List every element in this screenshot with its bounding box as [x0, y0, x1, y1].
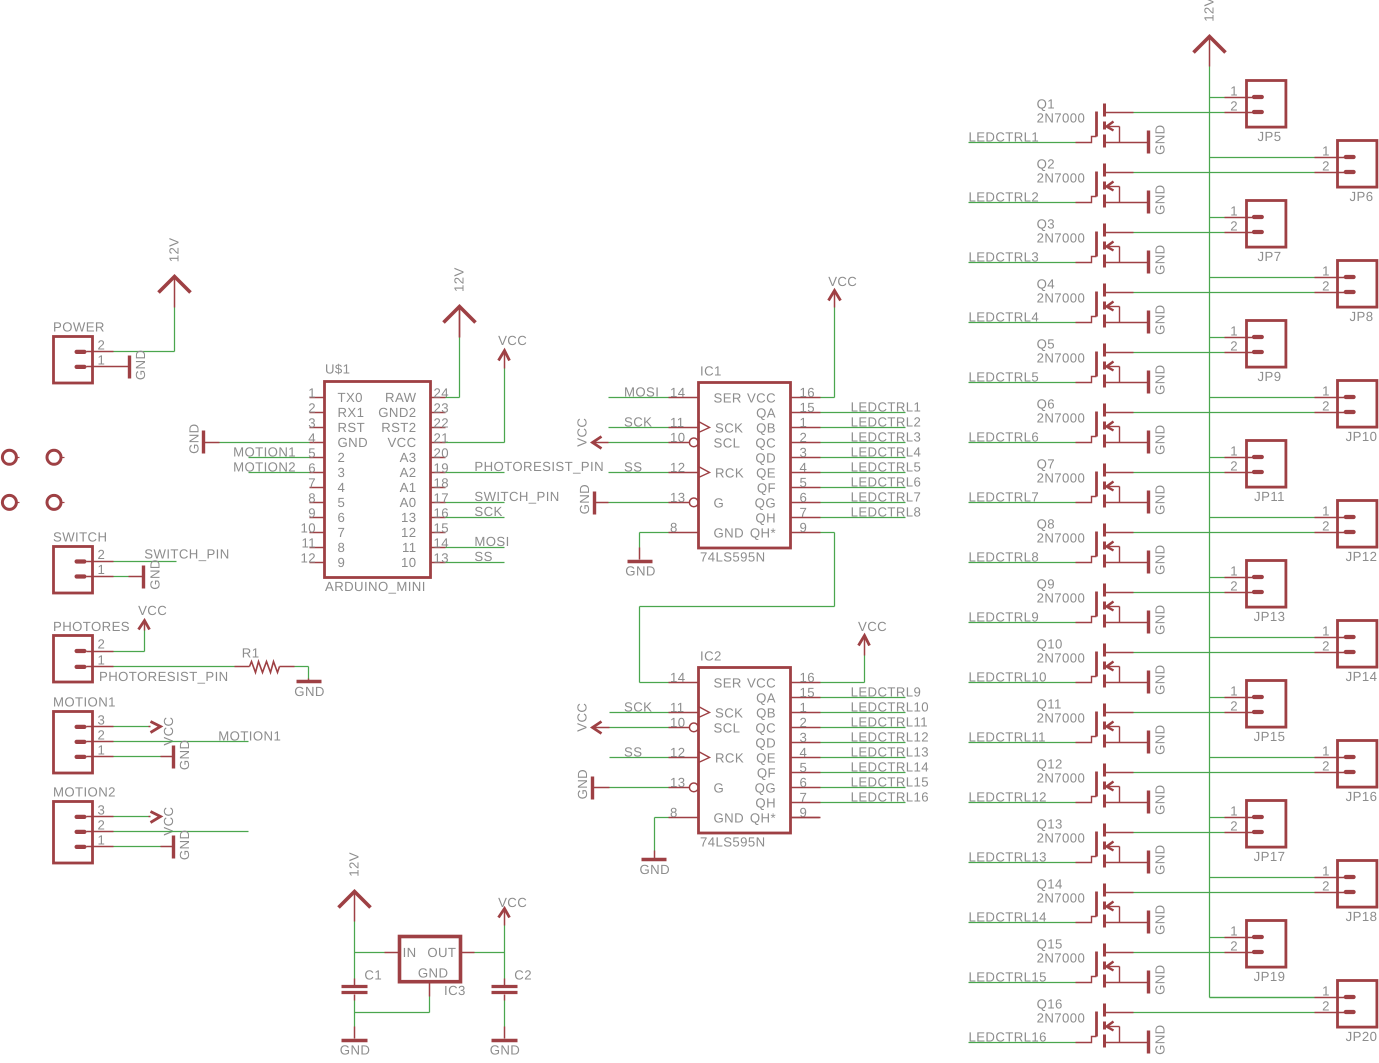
- svg-text:2: 2: [1322, 759, 1330, 774]
- svg-text:24: 24: [434, 385, 449, 400]
- wire MOSI from U$1 pin 14: [445, 546, 504, 548]
- svg-text:QD: QD: [755, 735, 776, 750]
- wire Q10 drain to JP14 pin 2: [1133, 652, 1314, 654]
- wire 12V from POWER pin 2: [114, 307, 175, 351]
- svg-text:JP17: JP17: [1254, 849, 1286, 864]
- svg-text:7: 7: [799, 790, 807, 805]
- connector JP9: [1225, 321, 1286, 385]
- svg-text:GND: GND: [1152, 544, 1167, 575]
- svg-text:LEDCTRL2: LEDCTRL2: [851, 414, 922, 429]
- svg-text:IC1: IC1: [700, 364, 722, 379]
- wire LEDCTRL1 from IC1: [821, 412, 906, 414]
- svg-text:QA: QA: [756, 405, 776, 420]
- connector JP5: [1225, 81, 1286, 145]
- svg-text:19: 19: [434, 460, 449, 475]
- net label SS at U$1: [474, 549, 492, 564]
- svg-text:2: 2: [1230, 939, 1238, 954]
- svg-text:LEDCTRL13: LEDCTRL13: [851, 744, 929, 759]
- svg-text:1: 1: [97, 562, 105, 577]
- ground GND at IC1 pin 13: [577, 484, 609, 515]
- svg-text:2N7000: 2N7000: [1037, 651, 1086, 666]
- svg-text:13: 13: [670, 490, 685, 505]
- wire GND to IC1 pin 13: [609, 501, 669, 503]
- svg-text:1: 1: [1230, 804, 1238, 819]
- svg-text:LEDCTRL7: LEDCTRL7: [851, 489, 922, 504]
- power symbol 12V at POWER: [159, 238, 191, 308]
- svg-text:3: 3: [338, 465, 346, 480]
- wire LEDCTRL12 to Q12 gate: [968, 802, 1075, 804]
- wire Q11 drain to JP15 pin 2: [1133, 712, 1224, 714]
- wire 12V rail to JP9 pin 1: [1210, 337, 1225, 339]
- ground GND at IC2 pin 8: [639, 859, 670, 877]
- svg-text:2N7000: 2N7000: [1037, 591, 1086, 606]
- svg-text:LEDCTRL3: LEDCTRL3: [851, 429, 922, 444]
- wire LEDCTRL5 from IC1: [821, 472, 906, 474]
- wire LEDCTRL8 from IC1: [821, 517, 906, 519]
- wire Q4 drain to JP8 pin 2: [1134, 292, 1315, 294]
- svg-text:GND: GND: [133, 350, 148, 381]
- svg-text:15: 15: [434, 520, 449, 535]
- transistor Q1 2N7000: [1037, 97, 1148, 148]
- svg-text:2N7000: 2N7000: [1037, 711, 1086, 726]
- capacitor C1: [341, 967, 382, 992]
- wire LEDCTRL11 from IC2: [820, 727, 905, 729]
- ic U$1 ARDUINO_MINI: [301, 362, 449, 595]
- svg-text:GND: GND: [177, 830, 192, 861]
- svg-text:QB: QB: [756, 705, 776, 720]
- svg-text:U$1: U$1: [325, 362, 350, 377]
- svg-text:74LS595N: 74LS595N: [700, 835, 766, 850]
- svg-text:16: 16: [434, 505, 449, 520]
- wire LEDCTRL7 from IC1: [821, 502, 906, 504]
- wire LEDCTRL5 to Q5 gate: [969, 382, 1076, 384]
- ic IC2 74LS595N: [668, 649, 820, 850]
- connector JP8: [1315, 261, 1377, 325]
- svg-text:Q12: Q12: [1037, 757, 1063, 772]
- transistor Q8 2N7000: [1037, 517, 1148, 568]
- wire MOSI to IC1 pin 14: [609, 396, 669, 398]
- transistor Q13 2N7000: [1037, 817, 1148, 868]
- svg-text:JP20: JP20: [1346, 1029, 1378, 1044]
- mounting hole H1: [2, 450, 19, 464]
- wire LEDCTRL2 from IC1: [821, 427, 906, 429]
- ground GND at Q5: [1149, 364, 1168, 395]
- svg-text:QH*: QH*: [750, 525, 776, 540]
- svg-text:9: 9: [800, 520, 808, 535]
- net label LEDCTRL4 at IC1: [851, 444, 922, 459]
- svg-text:Q7: Q7: [1037, 457, 1055, 472]
- svg-text:1: 1: [98, 352, 106, 367]
- svg-text:GND: GND: [714, 525, 745, 540]
- svg-text:4: 4: [308, 431, 316, 446]
- power symbol VCC at U$1: [498, 333, 527, 360]
- svg-text:2: 2: [1230, 699, 1238, 714]
- svg-text:1: 1: [1230, 84, 1238, 99]
- svg-text:1: 1: [97, 742, 105, 757]
- svg-text:2: 2: [800, 430, 808, 445]
- svg-text:RCK: RCK: [715, 465, 744, 480]
- svg-text:VCC: VCC: [574, 703, 589, 732]
- svg-text:GND: GND: [147, 559, 162, 590]
- connector MOTION2: [53, 784, 116, 863]
- net label SWITCH_PIN: [144, 547, 229, 562]
- svg-text:2N7000: 2N7000: [1037, 351, 1086, 366]
- svg-text:9: 9: [337, 555, 345, 570]
- svg-text:IC3: IC3: [444, 983, 466, 998]
- power symbol VCC at IC2 pin 10 (left arrow): [574, 703, 609, 734]
- svg-text:GND: GND: [1152, 844, 1167, 875]
- wire Q1 drain to JP5 pin 2: [1134, 112, 1225, 114]
- svg-text:1: 1: [799, 700, 807, 715]
- wire LEDCTRL6 to Q6 gate: [969, 442, 1076, 444]
- transistor Q4 2N7000: [1037, 277, 1148, 328]
- connector MOTION1: [53, 694, 116, 773]
- ground GND at Q11: [1148, 724, 1167, 755]
- svg-text:2: 2: [97, 727, 105, 742]
- svg-text:VCC: VCC: [498, 895, 527, 910]
- svg-text:G: G: [714, 495, 725, 510]
- svg-text:1: 1: [1322, 624, 1330, 639]
- svg-text:VCC: VCC: [138, 603, 167, 618]
- svg-text:2: 2: [1322, 279, 1330, 294]
- svg-text:1: 1: [1322, 864, 1330, 879]
- svg-text:2: 2: [97, 817, 105, 832]
- svg-text:3: 3: [97, 802, 105, 817]
- svg-text:RX1: RX1: [338, 405, 365, 420]
- svg-text:RCK: RCK: [715, 750, 744, 765]
- svg-text:GND: GND: [177, 740, 192, 771]
- ground GND at Q9: [1148, 604, 1167, 635]
- svg-text:SER: SER: [713, 675, 741, 690]
- ground GND at SWITCH pin 1: [143, 559, 162, 590]
- svg-text:Q8: Q8: [1037, 517, 1055, 532]
- svg-text:VCC: VCC: [828, 274, 857, 289]
- wire LEDCTRL4 from IC1: [821, 457, 906, 459]
- svg-text:A3: A3: [400, 450, 417, 465]
- svg-text:RST2: RST2: [381, 420, 416, 435]
- svg-text:2N7000: 2N7000: [1037, 771, 1086, 786]
- connector JP11: [1225, 441, 1286, 505]
- net label LEDCTRL1 at Q1: [969, 129, 1040, 144]
- svg-text:1: 1: [1322, 744, 1330, 759]
- wire 12V rail to JP20 pin 1: [1209, 997, 1314, 999]
- connector PHOTORES: [53, 619, 130, 682]
- net label LEDCTRL15 at Q15: [968, 969, 1046, 984]
- svg-text:Q5: Q5: [1037, 337, 1055, 352]
- svg-text:2: 2: [1230, 819, 1238, 834]
- svg-text:LEDCTRL11: LEDCTRL11: [851, 714, 928, 729]
- ground GND at MOTION1 pin 1: [173, 740, 191, 771]
- svg-text:LEDCTRL6: LEDCTRL6: [851, 474, 922, 489]
- svg-text:QC: QC: [755, 435, 776, 450]
- svg-text:SCK: SCK: [715, 705, 743, 720]
- svg-text:SER: SER: [714, 390, 742, 405]
- svg-text:8: 8: [337, 540, 345, 555]
- wire LEDCTRL1 to Q1 gate: [969, 142, 1076, 144]
- wire Q15 drain to JP19 pin 2: [1133, 952, 1224, 954]
- svg-text:2: 2: [1322, 879, 1330, 894]
- wire Q16 drain to JP20 pin 2: [1133, 1012, 1314, 1014]
- ground GND at Q3: [1149, 244, 1168, 275]
- svg-text:1: 1: [1230, 204, 1238, 219]
- svg-text:6: 6: [338, 510, 346, 525]
- wire to GND from MOTION1 pin 1: [113, 755, 173, 757]
- net label LEDCTRL7 at Q7: [969, 489, 1040, 504]
- net label LEDCTRL7 at IC1: [851, 489, 922, 504]
- connector JP16: [1314, 741, 1377, 805]
- svg-text:GND: GND: [1152, 124, 1167, 155]
- svg-text:2: 2: [1322, 399, 1330, 414]
- ground GND at Q13: [1148, 844, 1167, 875]
- svg-text:12V: 12V: [1201, 0, 1216, 22]
- svg-text:MOTION2: MOTION2: [53, 784, 116, 799]
- svg-text:2: 2: [338, 450, 346, 465]
- wire MOTION1 to U$1 pin 5: [249, 456, 310, 458]
- wire 12V rail vertical: [1208, 67, 1210, 998]
- net label SWITCH_PIN at U$1: [474, 489, 559, 504]
- connector JP17: [1224, 801, 1285, 865]
- svg-text:TX0: TX0: [338, 390, 363, 405]
- wire to GND from SWITCH pin 1: [113, 575, 143, 577]
- power symbol VCC at MOTION2 (rot): [150, 806, 175, 835]
- svg-text:1: 1: [1322, 144, 1330, 159]
- transistor Q3 2N7000: [1037, 217, 1148, 268]
- svg-text:GND: GND: [338, 435, 369, 450]
- svg-text:4: 4: [338, 480, 346, 495]
- net label PHOTORESIST_PIN at U$1: [474, 459, 604, 474]
- wire LEDCTRL15 to Q15 gate: [968, 982, 1075, 984]
- transistor Q9 2N7000: [1037, 577, 1148, 628]
- net label LEDCTRL4 at Q4: [969, 309, 1040, 324]
- svg-text:12: 12: [301, 551, 316, 566]
- wire 12V rail to JP12 pin 1: [1210, 517, 1315, 519]
- svg-text:GND: GND: [1152, 664, 1167, 695]
- connector JP14: [1314, 621, 1377, 685]
- wire VCC to IC2 pin 10: [609, 726, 668, 728]
- ground GND at Q7: [1149, 484, 1168, 515]
- transistor Q10 2N7000: [1037, 637, 1148, 688]
- svg-text:QE: QE: [756, 465, 776, 480]
- wire VCC to IC1 pin 10: [609, 441, 669, 443]
- svg-text:5: 5: [308, 446, 316, 461]
- wire LEDCTRL4 to Q4 gate: [969, 322, 1076, 324]
- ground GND at Q10: [1148, 664, 1167, 695]
- wire VCC from MOTION2 pin 3: [113, 815, 150, 817]
- svg-text:PHOTORESIST_PIN: PHOTORESIST_PIN: [99, 669, 229, 684]
- power symbol VCC at IC3 OUT: [498, 895, 527, 918]
- net label LEDCTRL13 at Q13: [968, 849, 1046, 864]
- net label LEDCTRL10 at IC2: [851, 699, 929, 714]
- wire C2 top: [503, 952, 505, 985]
- svg-text:LEDCTRL14: LEDCTRL14: [851, 759, 929, 774]
- svg-text:IN: IN: [403, 945, 417, 960]
- wire LEDCTRL16 to Q16 gate: [968, 1042, 1075, 1044]
- mounting hole H3: [2, 495, 19, 509]
- svg-text:Q9: Q9: [1037, 577, 1055, 592]
- connector SWITCH: [53, 529, 114, 593]
- power symbol VCC at PHOTORES: [138, 603, 167, 630]
- svg-text:14: 14: [433, 535, 448, 550]
- svg-text:1: 1: [308, 386, 316, 401]
- svg-text:VCC: VCC: [747, 390, 776, 405]
- svg-text:14: 14: [670, 385, 685, 400]
- wire VCC from IC2 pin 16: [820, 638, 864, 683]
- svg-text:QG: QG: [755, 495, 776, 510]
- svg-text:GND: GND: [1152, 184, 1167, 215]
- wire MOTION1 from MOTION1 pin 2: [113, 740, 248, 742]
- svg-text:SCL: SCL: [713, 720, 740, 735]
- connector JP15: [1224, 681, 1285, 745]
- svg-text:2: 2: [1322, 159, 1330, 174]
- svg-text:1: 1: [97, 832, 105, 847]
- svg-text:20: 20: [434, 445, 449, 460]
- wire SWITCH_PIN from U$1 pin 17: [446, 501, 505, 503]
- wire LEDCTRL12 from IC2: [820, 742, 905, 744]
- svg-text:13: 13: [433, 550, 448, 565]
- wire 12V rail to JP5 pin 1: [1210, 97, 1225, 99]
- net label LEDCTRL5 at Q5: [969, 369, 1040, 384]
- svg-text:GND: GND: [639, 862, 670, 877]
- wire SCK to IC1 pin 11: [609, 426, 669, 428]
- wire 12V rail to JP14 pin 1: [1209, 637, 1314, 639]
- svg-text:Q16: Q16: [1037, 997, 1063, 1012]
- net label LEDCTRL10 at Q10: [968, 669, 1046, 684]
- svg-text:2N7000: 2N7000: [1037, 1011, 1086, 1026]
- wire MOTION2 to U$1 pin 6: [249, 471, 310, 473]
- net label LEDCTRL16 at Q16: [968, 1029, 1046, 1044]
- svg-text:12V: 12V: [167, 238, 182, 263]
- svg-text:LEDCTRL10: LEDCTRL10: [851, 699, 929, 714]
- power symbol VCC above IC2: [858, 619, 887, 646]
- svg-text:Q13: Q13: [1037, 817, 1063, 832]
- ground GND below C1: [340, 1040, 371, 1057]
- svg-text:A2: A2: [400, 465, 417, 480]
- svg-text:11: 11: [670, 415, 685, 430]
- wire Q5 drain to JP9 pin 2: [1134, 352, 1225, 354]
- connector JP19: [1224, 921, 1285, 985]
- ground GND at Q16: [1148, 1024, 1167, 1055]
- wire 12V rail to JP20 pin 1: [1209, 997, 1314, 999]
- svg-text:RST: RST: [338, 420, 366, 435]
- svg-text:GND: GND: [1152, 304, 1167, 335]
- svg-text:4: 4: [799, 745, 807, 760]
- svg-text:15: 15: [800, 400, 815, 415]
- net label LEDCTRL8 at IC1: [851, 504, 922, 519]
- connector JP13: [1224, 561, 1285, 625]
- svg-text:2N7000: 2N7000: [1037, 531, 1086, 546]
- net label LEDCTRL12 at IC2: [851, 729, 929, 744]
- svg-text:POWER: POWER: [53, 319, 105, 334]
- power symbol 12V at U$1: [444, 267, 476, 337]
- svg-text:MOTION1: MOTION1: [218, 729, 281, 744]
- wire IC1 QH* to IC2 SER: [639, 532, 834, 682]
- svg-text:JP15: JP15: [1254, 729, 1286, 744]
- ground GND at IC1 pin 8: [625, 561, 656, 578]
- svg-text:C2: C2: [514, 967, 532, 982]
- wire R1 to GND: [294, 666, 308, 680]
- svg-text:SWITCH_PIN: SWITCH_PIN: [474, 489, 559, 504]
- svg-text:1: 1: [97, 652, 105, 667]
- wire MOTION2 from MOTION2 pin 2: [113, 830, 248, 832]
- wire 12V rail to JP8 pin 1: [1210, 277, 1315, 279]
- ground GND at Q12: [1148, 784, 1167, 815]
- svg-text:2N7000: 2N7000: [1037, 831, 1086, 846]
- net label LEDCTRL8 at Q8: [968, 549, 1039, 564]
- ground GND at Q8: [1148, 544, 1167, 575]
- wire IC3 GND pin: [354, 981, 429, 1012]
- transistor Q7 2N7000: [1037, 457, 1148, 508]
- svg-text:2: 2: [97, 547, 105, 562]
- svg-text:SCK: SCK: [474, 504, 502, 519]
- svg-text:5: 5: [338, 495, 346, 510]
- wire C1 bottom to GND: [353, 994, 355, 1038]
- svg-text:JP14: JP14: [1346, 669, 1378, 684]
- svg-text:2N7000: 2N7000: [1037, 411, 1086, 426]
- svg-text:12V: 12V: [452, 267, 467, 292]
- svg-text:LEDCTRL15: LEDCTRL15: [851, 774, 929, 789]
- wire GND from IC1 pin 8: [639, 532, 668, 559]
- wire 12V rail to JP16 pin 1: [1209, 757, 1314, 759]
- svg-text:2: 2: [1230, 579, 1238, 594]
- wire 12V rail to JP7 pin 1: [1210, 217, 1225, 219]
- net label LEDCTRL11 at Q11: [968, 729, 1045, 744]
- power symbol VCC at MOTION1 (rot): [150, 716, 175, 745]
- svg-text:2: 2: [1230, 459, 1238, 474]
- svg-text:22: 22: [434, 415, 449, 430]
- svg-text:JP12: JP12: [1346, 549, 1378, 564]
- svg-text:GND: GND: [490, 1042, 521, 1057]
- svg-text:GND: GND: [1152, 964, 1167, 995]
- transistor Q5 2N7000: [1037, 337, 1148, 388]
- net label SCK at U$1: [474, 504, 502, 519]
- wire LEDCTRL6 from IC1: [821, 487, 906, 489]
- capacitor C2: [491, 967, 531, 992]
- wire LEDCTRL13 from IC2: [820, 757, 905, 759]
- wire Q7 drain to JP11 pin 2: [1134, 472, 1225, 474]
- net label LEDCTRL14 at Q14: [968, 909, 1046, 924]
- ground GND at R1: [294, 681, 325, 699]
- wire C1 top: [353, 952, 355, 985]
- wire LEDCTRL10 to Q10 gate: [968, 682, 1075, 684]
- svg-text:GND: GND: [1152, 604, 1167, 635]
- svg-text:MOSI: MOSI: [474, 534, 509, 549]
- svg-text:11: 11: [402, 540, 417, 555]
- wire Q2 drain to JP6 pin 2: [1134, 172, 1315, 174]
- power symbol 12V top right: [1194, 0, 1226, 67]
- ground GND at Q2: [1149, 184, 1168, 215]
- svg-text:GND: GND: [418, 966, 449, 981]
- wire 12V rail to JP15 pin 1: [1209, 697, 1224, 699]
- svg-text:1: 1: [1322, 504, 1330, 519]
- wire GND from IC2 pin 8: [654, 817, 668, 858]
- wire LEDCTRL8 to Q8 gate: [968, 562, 1075, 564]
- net label LEDCTRL13 at IC2: [851, 744, 929, 759]
- svg-text:GND: GND: [294, 684, 325, 699]
- svg-text:JP11: JP11: [1254, 489, 1285, 504]
- svg-text:1: 1: [1322, 264, 1330, 279]
- svg-text:2: 2: [97, 636, 105, 651]
- wire LEDCTRL3 to Q3 gate: [969, 262, 1076, 264]
- ground GND at Q1: [1149, 124, 1168, 155]
- wire 12V rail to JP11 pin 1: [1210, 457, 1225, 459]
- svg-text:JP13: JP13: [1254, 609, 1286, 624]
- net label LEDCTRL2 at Q2: [969, 189, 1040, 204]
- net label LEDCTRL5 at IC1: [851, 459, 922, 474]
- svg-text:3: 3: [800, 445, 808, 460]
- svg-text:LEDCTRL1: LEDCTRL1: [851, 399, 922, 414]
- svg-text:Q4: Q4: [1037, 277, 1055, 292]
- wire Q3 drain to JP7 pin 2: [1134, 232, 1225, 234]
